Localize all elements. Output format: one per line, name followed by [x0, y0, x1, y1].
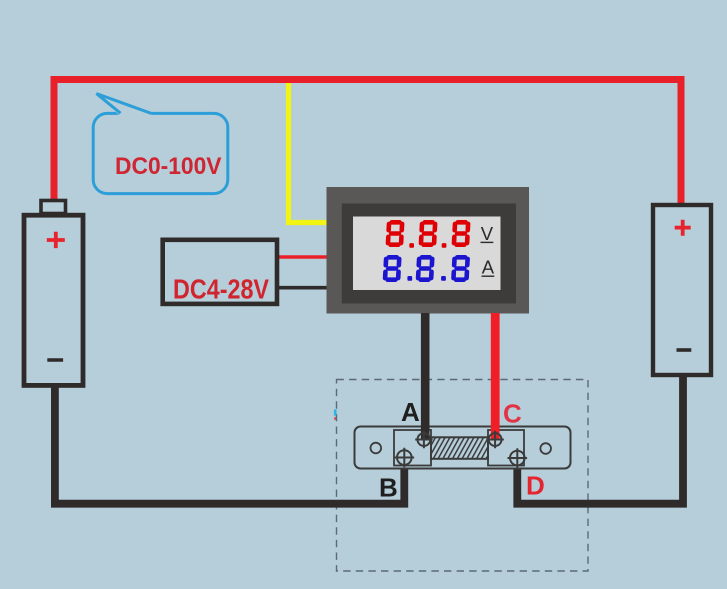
node label A [401, 397, 420, 427]
screw terminal D [508, 448, 528, 468]
wire: yellow sense wire from top red wire to meter [289, 83, 331, 223]
power supply box DC4-28V [163, 240, 277, 304]
wire: black negative from right battery to shunt terminal D [517, 376, 683, 504]
dashed boundary box around shunt [337, 380, 589, 572]
wire: red positive top (left battery + to right battery +) [54, 80, 681, 207]
display unit label V [481, 223, 494, 244]
shunt right terminal block [488, 430, 524, 466]
svg-text:A: A [482, 257, 495, 278]
node label C [503, 399, 522, 429]
wire: black meter sense to terminal A [421, 313, 430, 440]
screw terminal A [415, 431, 432, 448]
node label D [526, 471, 545, 501]
screw terminal C [486, 431, 503, 448]
shunt left mounting hole [371, 443, 382, 454]
svg-text:DC0-100V: DC0-100V [115, 153, 222, 180]
callout bubble DC0-100V [93, 94, 228, 194]
svg-text:C: C [503, 399, 522, 429]
screw terminal B [395, 448, 415, 468]
shunt R1 mounting plate [355, 427, 571, 469]
svg-text:DC4-28V: DC4-28V [173, 273, 270, 304]
wire: black negative from left battery to shunt terminal B [55, 387, 404, 504]
svg-text:V: V [481, 223, 494, 244]
display digits current 8.8.8 (blue) [383, 255, 471, 282]
svg-text:B: B [379, 472, 398, 502]
shunt resistance element (hatched bar) [431, 437, 488, 459]
svg-text:A: A [401, 397, 420, 427]
display digits voltage 8.8.8 (red) [385, 220, 470, 248]
node label B [379, 472, 398, 502]
wire: thin black from DC4-28V box to meter [279, 286, 330, 290]
meter module U1 (panel voltmeter ammeter) [327, 187, 530, 314]
wire: red meter sense to terminal C [491, 313, 500, 440]
display unit label A [482, 257, 495, 278]
battery BT1 (left) [24, 201, 83, 386]
shunt right mounting hole [540, 443, 551, 454]
wire: thin red from DC4-28V box to meter [279, 255, 330, 258]
svg-text:D: D [526, 471, 545, 501]
battery BT2 (right) [653, 205, 711, 375]
shunt left terminal block [394, 430, 431, 466]
artifact cyan dash on dashed border [334, 410, 336, 420]
